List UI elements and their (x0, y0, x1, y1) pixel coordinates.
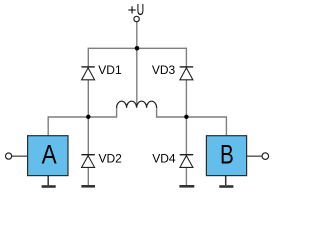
node: top rail junction (135, 46, 140, 51)
output terminal (right) (262, 153, 269, 160)
svg-text:U: U (137, 1, 145, 19)
wire: top rail (88, 47, 186, 49)
wire: inductor left lead riser (116, 107, 118, 118)
diode VD2 (81, 155, 94, 168)
wire: right rail drop to VD3 (185, 48, 187, 117)
block A (28, 136, 68, 176)
node: right junction (184, 115, 188, 119)
diode VD1 (81, 67, 94, 80)
ground under box A (42, 176, 56, 187)
block B (206, 136, 246, 176)
wire: left rail drop to VD1 (87, 48, 89, 117)
input terminal (left) (6, 153, 12, 159)
inductor L1 (center-tapped coil) (117, 101, 157, 108)
wire: drop to box B (225, 116, 227, 136)
diode VD3 (180, 67, 194, 80)
ground under VD4 (179, 185, 194, 188)
wire: left terminal to box A (12, 155, 28, 157)
wire: right mid horizontal (157, 116, 227, 118)
wire: +U terminal to top rail (136, 22, 138, 48)
wire: right branch VD4 to ground (185, 117, 187, 185)
wire: inductor right lead riser (156, 107, 158, 118)
node: left junction (86, 115, 90, 119)
svg-text:A: A (42, 140, 57, 170)
wire: left branch VD2 to ground (87, 117, 89, 185)
svg-text:VD3: VD3 (152, 63, 176, 77)
wire: center drop to inductor tap (136, 48, 138, 106)
svg-text:VD1: VD1 (98, 63, 122, 77)
ground under VD2 (81, 185, 95, 188)
wire: box B to right terminal (246, 155, 262, 157)
diode VD4 (180, 155, 194, 168)
svg-text:VD2: VD2 (99, 152, 123, 166)
svg-text:+: + (128, 2, 137, 19)
svg-text:VD4: VD4 (152, 152, 176, 166)
wire: drop to box A (47, 116, 49, 136)
wire: left mid horizontal (48, 116, 116, 118)
svg-text:B: B (220, 140, 234, 170)
power terminal +U circle (134, 16, 139, 21)
ground under box B (219, 176, 233, 187)
